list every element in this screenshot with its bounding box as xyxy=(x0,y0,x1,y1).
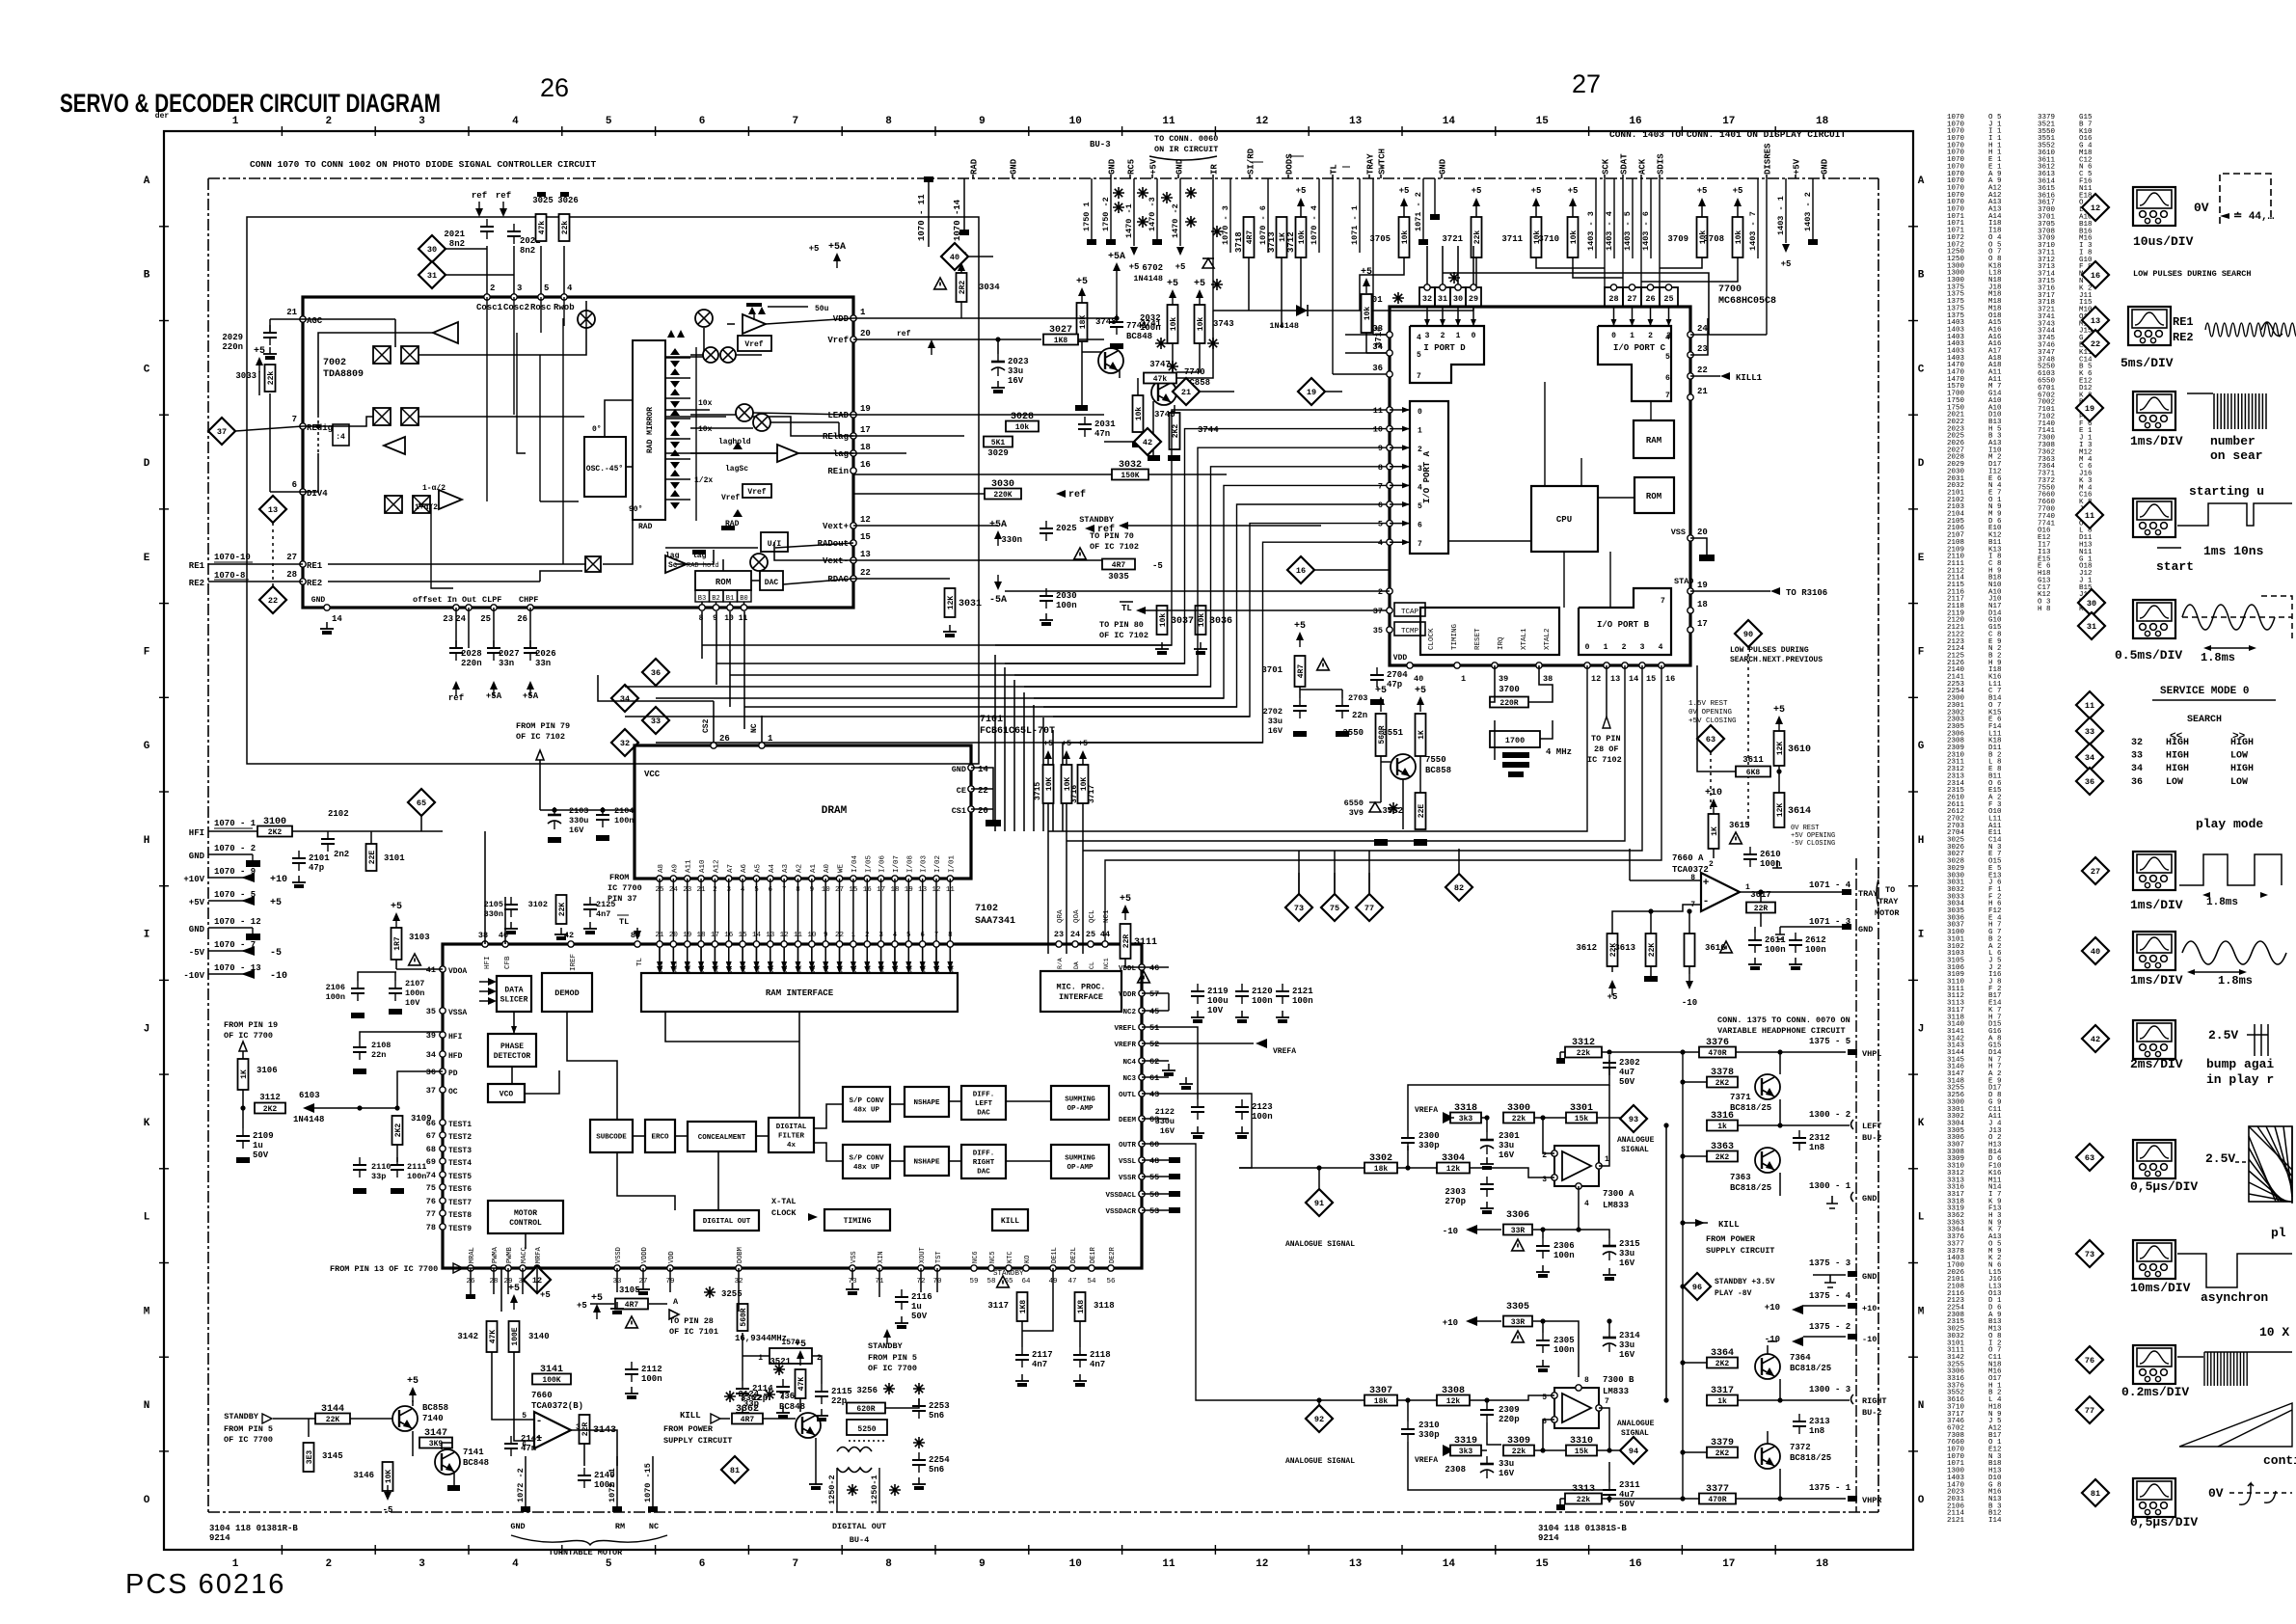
svg-text:S/P CONV: S/P CONV xyxy=(849,1097,884,1105)
svg-text:CL: CL xyxy=(1089,961,1095,969)
svg-text:5K1: 5K1 xyxy=(991,439,1006,447)
svg-text:VDDR: VDDR xyxy=(1119,991,1137,999)
svg-text:53: 53 xyxy=(1149,1206,1159,1216)
svg-text:PWMA: PWMA xyxy=(492,1246,500,1263)
svg-text:11: 11 xyxy=(2085,701,2094,711)
svg-text:BC818/25: BC818/25 xyxy=(1790,1364,1831,1373)
svg-text:HFI: HFI xyxy=(484,956,492,969)
svg-text:DIGITAL OUT: DIGITAL OUT xyxy=(832,1522,886,1531)
svg-text:50V: 50V xyxy=(911,1312,928,1321)
svg-text:2253: 2253 xyxy=(929,1401,950,1411)
svg-text:+5: +5 xyxy=(1375,686,1387,696)
svg-text:+5V: +5V xyxy=(189,898,205,907)
svg-text:47: 47 xyxy=(1067,1278,1076,1286)
svg-text:33n: 33n xyxy=(535,659,551,668)
svg-text:Vref: Vref xyxy=(744,340,763,349)
svg-text:2: 2 xyxy=(1441,332,1445,340)
svg-text:18k: 18k xyxy=(1374,1165,1389,1174)
svg-text:11: 11 xyxy=(1373,406,1383,416)
svg-text:A8: A8 xyxy=(658,864,665,873)
svg-text:2112: 2112 xyxy=(641,1365,662,1374)
svg-text:I: I xyxy=(1918,930,1925,941)
svg-text:7: 7 xyxy=(1417,372,1421,381)
svg-text:22k: 22k xyxy=(1577,1496,1591,1504)
svg-text:OUTL: OUTL xyxy=(1119,1092,1137,1099)
svg-text:3K9: 3K9 xyxy=(429,1440,444,1448)
svg-text:100n: 100n xyxy=(614,816,634,826)
svg-text:3316: 3316 xyxy=(1711,1111,1734,1122)
svg-text:A3: A3 xyxy=(782,863,790,873)
svg-text:14: 14 xyxy=(1443,116,1456,127)
svg-text:2109: 2109 xyxy=(253,1131,274,1141)
svg-text:100n: 100n xyxy=(1805,945,1826,955)
svg-text:LM833: LM833 xyxy=(1603,1201,1629,1210)
svg-text:GND: GND xyxy=(189,852,205,861)
svg-text:D: D xyxy=(144,458,150,470)
svg-text:5250: 5250 xyxy=(857,1425,876,1434)
svg-text:DAC: DAC xyxy=(977,1110,990,1118)
svg-text:2K2: 2K2 xyxy=(394,1123,403,1138)
svg-text:2702: 2702 xyxy=(1263,707,1283,717)
svg-text:RIGHT: RIGHT xyxy=(973,1159,995,1167)
svg-text:K: K xyxy=(144,1118,150,1129)
svg-text:22E: 22E xyxy=(1418,804,1426,819)
svg-text:3: 3 xyxy=(419,116,425,127)
svg-text:73: 73 xyxy=(1294,904,1304,913)
svg-text:+5A: +5A xyxy=(989,520,1007,530)
svg-text:MOTOR: MOTOR xyxy=(514,1209,537,1218)
svg-text:3701: 3701 xyxy=(1261,665,1283,675)
svg-text:BC848: BC848 xyxy=(1126,332,1152,341)
svg-text:30: 30 xyxy=(2087,599,2096,609)
svg-text:3: 3 xyxy=(1418,465,1422,474)
svg-text:I/O PORT C: I/O PORT C xyxy=(1613,343,1666,353)
svg-text:3112: 3112 xyxy=(259,1093,281,1102)
svg-text:Vref: Vref xyxy=(827,336,849,345)
svg-text:12K: 12K xyxy=(1776,742,1785,756)
svg-text:BC818/25: BC818/25 xyxy=(1730,1103,1771,1113)
svg-text:4: 4 xyxy=(1417,334,1421,342)
svg-text:Cosc1: Cosc1 xyxy=(476,303,503,312)
svg-text:lagSc: lagSc xyxy=(725,465,748,474)
svg-text:100n: 100n xyxy=(1056,601,1077,610)
svg-text:SIGNAL: SIGNAL xyxy=(1621,1146,1649,1154)
svg-text:laghold: laghold xyxy=(718,438,751,447)
svg-text:-10: -10 xyxy=(1765,1335,1780,1344)
svg-text:TDA8809: TDA8809 xyxy=(323,369,364,380)
svg-text:+5: +5 xyxy=(508,1284,520,1294)
svg-text:GND: GND xyxy=(1858,925,1873,934)
svg-text:1300 - 3: 1300 - 3 xyxy=(1809,1385,1850,1394)
svg-text:17: 17 xyxy=(711,932,719,939)
svg-text:3709: 3709 xyxy=(1667,234,1688,244)
svg-text:3319: 3319 xyxy=(1454,1436,1477,1447)
svg-text:1250-1: 1250-1 xyxy=(870,1475,879,1504)
svg-text:22R: 22R xyxy=(581,1422,590,1437)
svg-text:14: 14 xyxy=(332,614,342,624)
svg-text:TRAY: TRAY xyxy=(1878,897,1899,907)
svg-text:36: 36 xyxy=(2131,777,2143,788)
svg-text:48: 48 xyxy=(1149,1156,1159,1166)
svg-text:47n: 47n xyxy=(521,1444,536,1453)
svg-text:1300 - 2: 1300 - 2 xyxy=(1809,1110,1850,1120)
svg-text:offset In Out: offset In Out xyxy=(413,595,476,605)
svg-text:2305: 2305 xyxy=(1553,1336,1575,1345)
svg-text:RESET: RESET xyxy=(1474,628,1482,650)
svg-text:VARIABLE HEADPHONE CIRCUIT: VARIABLE HEADPHONE CIRCUIT xyxy=(1717,1026,1846,1036)
svg-text:33u: 33u xyxy=(1499,1459,1514,1469)
svg-text:+5: +5 xyxy=(795,1340,806,1350)
svg-text:DRAM: DRAM xyxy=(822,805,848,817)
svg-text:3: 3 xyxy=(1640,643,1645,652)
svg-text:TO: TO xyxy=(1885,885,1895,895)
svg-text:27: 27 xyxy=(286,553,297,562)
svg-text:STANDBY: STANDBY xyxy=(868,1341,904,1351)
svg-text:37: 37 xyxy=(217,427,227,437)
svg-text:+5: +5 xyxy=(1120,894,1131,905)
svg-text:B0: B0 xyxy=(740,595,747,603)
svg-text:TEST7: TEST7 xyxy=(448,1199,472,1207)
svg-text:24: 24 xyxy=(1070,930,1080,939)
svg-text:16V: 16V xyxy=(1499,1469,1515,1478)
svg-text:OP-AMP: OP-AMP xyxy=(1067,1164,1094,1172)
svg-text:1K: 1K xyxy=(240,1069,249,1079)
svg-text:7700: 7700 xyxy=(1718,284,1742,295)
svg-text:TEST2: TEST2 xyxy=(448,1133,472,1142)
svg-text:BC848: BC848 xyxy=(463,1458,489,1468)
svg-text:2116: 2116 xyxy=(911,1292,932,1302)
svg-text:3712: 3712 xyxy=(1286,231,1296,253)
svg-text:220K: 220K xyxy=(993,491,1012,500)
svg-text:10K: 10K xyxy=(385,1470,393,1484)
svg-text:8n2: 8n2 xyxy=(520,246,535,256)
svg-text:1: 1 xyxy=(232,116,239,127)
svg-text:NC5: NC5 xyxy=(989,1251,997,1263)
svg-text:5: 5 xyxy=(1665,353,1670,362)
svg-text:7140: 7140 xyxy=(422,1414,444,1423)
svg-text:5: 5 xyxy=(1378,520,1383,529)
svg-text:16V: 16V xyxy=(1499,1150,1515,1160)
svg-text:3305: 3305 xyxy=(1506,1302,1529,1313)
svg-text:1403 - 2: 1403 - 2 xyxy=(1803,192,1813,231)
svg-text:65: 65 xyxy=(417,798,426,808)
svg-text:SUPPLY CIRCUIT: SUPPLY CIRCUIT xyxy=(1706,1246,1774,1256)
svg-text:1750 -2: 1750 -2 xyxy=(1101,197,1111,231)
svg-text:3700: 3700 xyxy=(1499,685,1520,694)
svg-text:30: 30 xyxy=(1453,294,1463,304)
svg-text:ACK: ACK xyxy=(1638,158,1648,175)
svg-text:11: 11 xyxy=(2085,511,2094,521)
svg-text:2303: 2303 xyxy=(1445,1187,1466,1197)
svg-text:1403 - 1: 1403 - 1 xyxy=(1776,196,1786,235)
svg-text:GND: GND xyxy=(311,596,326,605)
svg-text:ANALOGUE SIGNAL: ANALOGUE SIGNAL xyxy=(1285,1240,1355,1249)
svg-text:17: 17 xyxy=(1722,1558,1735,1570)
svg-text:22: 22 xyxy=(2091,339,2100,349)
svg-text:100n: 100n xyxy=(1765,945,1786,955)
svg-text:A2: A2 xyxy=(797,864,804,873)
svg-text:3708: 3708 xyxy=(1703,234,1724,244)
svg-text:VSSL: VSSL xyxy=(1119,1158,1137,1166)
svg-text:470R: 470R xyxy=(1708,1049,1726,1058)
svg-text:47n: 47n xyxy=(1094,429,1110,439)
svg-text:RIGHT: RIGHT xyxy=(1862,1396,1887,1406)
svg-text:10x: 10x xyxy=(698,399,713,408)
svg-text:6: 6 xyxy=(699,1558,706,1570)
svg-text:VDDL: VDDL xyxy=(1119,965,1137,973)
svg-text:+5V OPENING: +5V OPENING xyxy=(1791,832,1835,840)
svg-text:100n: 100n xyxy=(1140,323,1161,333)
svg-text:CPU: CPU xyxy=(1556,515,1572,525)
svg-text:LEAD: LEAD xyxy=(827,411,849,420)
svg-text:3721: 3721 xyxy=(1442,234,1463,244)
svg-text:2023: 2023 xyxy=(1008,357,1029,366)
svg-text:18: 18 xyxy=(1816,116,1829,127)
svg-text:3713: 3713 xyxy=(1267,231,1277,253)
svg-text:25: 25 xyxy=(1663,294,1673,304)
svg-text:16: 16 xyxy=(1296,566,1306,576)
svg-text:SI/RD: SI/RD xyxy=(1247,148,1256,175)
svg-text:DOBM: DOBM xyxy=(737,1247,744,1263)
svg-text:VHPR: VHPR xyxy=(1862,1496,1882,1505)
svg-text:22: 22 xyxy=(860,568,871,578)
svg-text:12k: 12k xyxy=(1446,1397,1461,1406)
svg-text:B2: B2 xyxy=(712,595,719,603)
svg-text:3715: 3715 xyxy=(1034,782,1042,800)
svg-text:3140: 3140 xyxy=(528,1332,550,1341)
svg-text:I/O PORT B: I/O PORT B xyxy=(1597,620,1650,630)
svg-text:16: 16 xyxy=(860,460,871,470)
svg-text:1.5V REST: 1.5V REST xyxy=(1688,700,1728,708)
svg-text:16: 16 xyxy=(1629,116,1641,127)
svg-text:3379: 3379 xyxy=(1711,1438,1734,1448)
svg-text:TO PIN 80: TO PIN 80 xyxy=(1099,620,1144,630)
svg-text:+5: +5 xyxy=(1773,705,1785,716)
svg-text:3747: 3747 xyxy=(1149,360,1171,369)
svg-text:play mode: play mode xyxy=(2196,817,2263,831)
svg-text:A5: A5 xyxy=(754,863,762,873)
svg-text:0.2ms/DIV: 0.2ms/DIV xyxy=(2121,1385,2189,1399)
svg-text:+5: +5 xyxy=(591,1293,603,1304)
svg-text:3031: 3031 xyxy=(959,599,982,609)
svg-text:19: 19 xyxy=(1307,388,1316,397)
svg-text:5n6: 5n6 xyxy=(929,1465,944,1475)
svg-text:10k: 10k xyxy=(1401,230,1410,245)
svg-text:A10: A10 xyxy=(699,859,707,873)
svg-text:GND: GND xyxy=(189,925,205,934)
svg-text:27: 27 xyxy=(2091,867,2100,877)
svg-text:TRAY: TRAY xyxy=(1366,153,1376,175)
svg-text:Vref: Vref xyxy=(721,494,740,502)
svg-text:3029: 3029 xyxy=(987,448,1009,458)
svg-text:3552: 3552 xyxy=(1382,806,1403,816)
svg-text:BC858: BC858 xyxy=(422,1403,448,1413)
svg-text:OF IC 7101: OF IC 7101 xyxy=(669,1327,718,1337)
svg-text:SEARCH: SEARCH xyxy=(2187,715,2222,725)
svg-text:12: 12 xyxy=(1256,116,1268,127)
svg-text:36: 36 xyxy=(426,1068,436,1077)
svg-text:CLOCK: CLOCK xyxy=(1428,628,1436,650)
svg-text:FROM POWER: FROM POWER xyxy=(663,1424,714,1434)
svg-text:18K: 18K xyxy=(1079,315,1088,330)
svg-text:HFI: HFI xyxy=(448,1033,463,1042)
svg-text:+5: +5 xyxy=(1531,186,1542,196)
svg-text:FILTER: FILTER xyxy=(778,1133,805,1141)
svg-text:18: 18 xyxy=(1697,600,1708,609)
svg-text:1071 - 4: 1071 - 4 xyxy=(1809,880,1851,890)
svg-text:2101: 2101 xyxy=(309,853,330,863)
svg-text:+5: +5 xyxy=(1296,186,1307,196)
svg-text:4n7: 4n7 xyxy=(1032,1360,1047,1369)
svg-text:TO PIN: TO PIN xyxy=(1591,734,1621,744)
svg-text:10k: 10k xyxy=(1135,407,1144,421)
svg-text:15: 15 xyxy=(739,932,748,939)
svg-text:OF IC 7102: OF IC 7102 xyxy=(1090,542,1139,552)
svg-text:75: 75 xyxy=(1330,904,1339,913)
svg-text:1K8: 1K8 xyxy=(1077,1300,1086,1314)
svg-text:1403 - 5: 1403 - 5 xyxy=(1623,211,1633,251)
svg-text:+5: +5 xyxy=(577,1301,587,1311)
svg-text:TL: TL xyxy=(1330,164,1339,175)
svg-text:Vext+: Vext+ xyxy=(823,522,849,531)
svg-text:PHASE: PHASE xyxy=(500,1042,524,1051)
svg-text:22K: 22K xyxy=(1648,943,1657,958)
svg-text:13: 13 xyxy=(2091,316,2100,326)
svg-text:40: 40 xyxy=(1414,674,1423,684)
svg-text:NSHAPE: NSHAPE xyxy=(913,1099,940,1107)
svg-text:FROM PIN 5: FROM PIN 5 xyxy=(224,1424,273,1434)
svg-text:32: 32 xyxy=(1422,294,1432,304)
svg-text:7363: 7363 xyxy=(1730,1173,1751,1182)
svg-text:TEST3: TEST3 xyxy=(448,1147,472,1155)
svg-text:+5A: +5A xyxy=(828,242,846,253)
svg-text:3743: 3743 xyxy=(1213,319,1234,329)
svg-text:6: 6 xyxy=(920,932,925,939)
svg-text:21: 21 xyxy=(286,308,297,317)
svg-text:1070 - 11: 1070 - 11 xyxy=(917,194,927,241)
svg-text:3306: 3306 xyxy=(1506,1210,1529,1221)
svg-text:59: 59 xyxy=(969,1278,978,1286)
svg-text:-5: -5 xyxy=(270,948,282,959)
svg-text:81: 81 xyxy=(730,1466,740,1475)
svg-text:21: 21 xyxy=(1697,387,1708,396)
svg-text:0: 0 xyxy=(1418,408,1422,417)
svg-text:BC848: BC848 xyxy=(779,1402,805,1412)
svg-text:1K: 1K xyxy=(1711,826,1719,836)
svg-text:7371: 7371 xyxy=(1730,1093,1751,1102)
svg-text:2311: 2311 xyxy=(1619,1480,1640,1490)
svg-text:I/08: I/08 xyxy=(906,855,914,873)
svg-text:20: 20 xyxy=(978,806,988,816)
svg-text:9214: 9214 xyxy=(209,1533,230,1543)
svg-text:0°: 0° xyxy=(592,425,602,434)
svg-text:26: 26 xyxy=(1645,294,1655,304)
svg-text:TO R3106: TO R3106 xyxy=(1786,588,1827,598)
svg-text:MACC: MACC xyxy=(521,1247,528,1263)
svg-text:3551: 3551 xyxy=(1382,728,1403,738)
svg-text:37: 37 xyxy=(1373,607,1383,616)
svg-text:CONN. 1403 TO CONN. 1401 ON DI: CONN. 1403 TO CONN. 1401 ON DISPLAY CIRC… xyxy=(1609,129,1846,140)
svg-text:50V: 50V xyxy=(1619,1077,1635,1087)
svg-text:100K: 100K xyxy=(542,1376,560,1385)
svg-text:10k: 10k xyxy=(1159,613,1168,628)
svg-text:2: 2 xyxy=(1648,332,1653,340)
svg-text:56: 56 xyxy=(1106,1278,1116,1286)
svg-text:2n2: 2n2 xyxy=(334,850,349,859)
svg-text:40: 40 xyxy=(950,253,959,262)
svg-text:22: 22 xyxy=(268,596,278,606)
svg-text:2108: 2108 xyxy=(371,1041,391,1050)
svg-text:pl: pl xyxy=(2271,1226,2286,1240)
svg-text:HIGH: HIGH xyxy=(2230,764,2254,774)
svg-text:KILL1: KILL1 xyxy=(1736,373,1763,383)
svg-text:NC1: NC1 xyxy=(1103,958,1110,969)
svg-text:4: 4 xyxy=(512,1558,519,1570)
svg-text:10V: 10V xyxy=(405,998,420,1008)
svg-text:3: 3 xyxy=(1425,332,1430,340)
svg-text:GND: GND xyxy=(510,1522,525,1531)
svg-text:SEARCH.NEXT.PREVIOUS: SEARCH.NEXT.PREVIOUS xyxy=(1730,656,1823,664)
svg-text:ref: ref xyxy=(448,693,464,703)
svg-text:43: 43 xyxy=(1149,1090,1159,1099)
svg-text:12K: 12K xyxy=(947,596,956,610)
svg-text:33u: 33u xyxy=(1499,1141,1514,1150)
svg-text:3111: 3111 xyxy=(1134,937,1157,948)
svg-text:18: 18 xyxy=(697,932,706,939)
svg-text:R/A: R/A xyxy=(1057,958,1064,969)
svg-text:ANALOGUE SIGNAL: ANALOGUE SIGNAL xyxy=(1285,1457,1355,1466)
svg-text:TRAY: TRAY xyxy=(1858,889,1878,899)
svg-text:+5A: +5A xyxy=(1108,252,1125,262)
svg-text:3142: 3142 xyxy=(457,1332,478,1341)
svg-text:21: 21 xyxy=(1181,388,1191,397)
svg-text:QCL: QCL xyxy=(1089,909,1096,923)
svg-text:3301: 3301 xyxy=(1570,1103,1593,1114)
svg-text:3362: 3362 xyxy=(736,1404,759,1415)
svg-text:17: 17 xyxy=(860,425,871,435)
svg-text:+5: +5 xyxy=(540,1290,551,1300)
svg-text:OP-AMP: OP-AMP xyxy=(1067,1105,1094,1113)
svg-text:10k: 10k xyxy=(1170,317,1178,332)
svg-text:4R7: 4R7 xyxy=(1246,230,1255,245)
svg-text:I PORT D: I PORT D xyxy=(1423,343,1466,353)
svg-text:1: 1 xyxy=(1418,427,1422,436)
svg-text:1700: 1700 xyxy=(1505,736,1525,745)
svg-text:25: 25 xyxy=(480,614,491,624)
svg-text:VSS: VSS xyxy=(1671,528,1686,537)
svg-text:75: 75 xyxy=(426,1183,436,1193)
svg-text:DE2L: DE2L xyxy=(1070,1247,1078,1263)
svg-text:H: H xyxy=(144,835,150,847)
svg-text:100n: 100n xyxy=(326,992,345,1002)
svg-text:14: 14 xyxy=(752,932,762,939)
svg-text:470R: 470R xyxy=(1708,1496,1726,1504)
svg-text:BU-4: BU-4 xyxy=(850,1535,869,1545)
svg-text:5ms/DIV: 5ms/DIV xyxy=(2120,356,2174,370)
svg-text:1250-2: 1250-2 xyxy=(827,1475,837,1504)
svg-text:22: 22 xyxy=(835,932,844,939)
svg-text:3k3: 3k3 xyxy=(1459,1448,1473,1456)
svg-text:2111: 2111 xyxy=(407,1162,426,1172)
svg-text:3104 118 01381S-B: 3104 118 01381S-B xyxy=(1538,1524,1627,1533)
svg-text:S/P CONV: S/P CONV xyxy=(849,1154,884,1162)
svg-text:SUMMING: SUMMING xyxy=(1065,1096,1095,1103)
svg-text:36: 36 xyxy=(651,668,661,678)
svg-text:RC5: RC5 xyxy=(1127,159,1137,175)
svg-text:4R7: 4R7 xyxy=(1297,664,1306,679)
svg-text:32: 32 xyxy=(2131,738,2143,748)
svg-text:31: 31 xyxy=(427,271,437,281)
